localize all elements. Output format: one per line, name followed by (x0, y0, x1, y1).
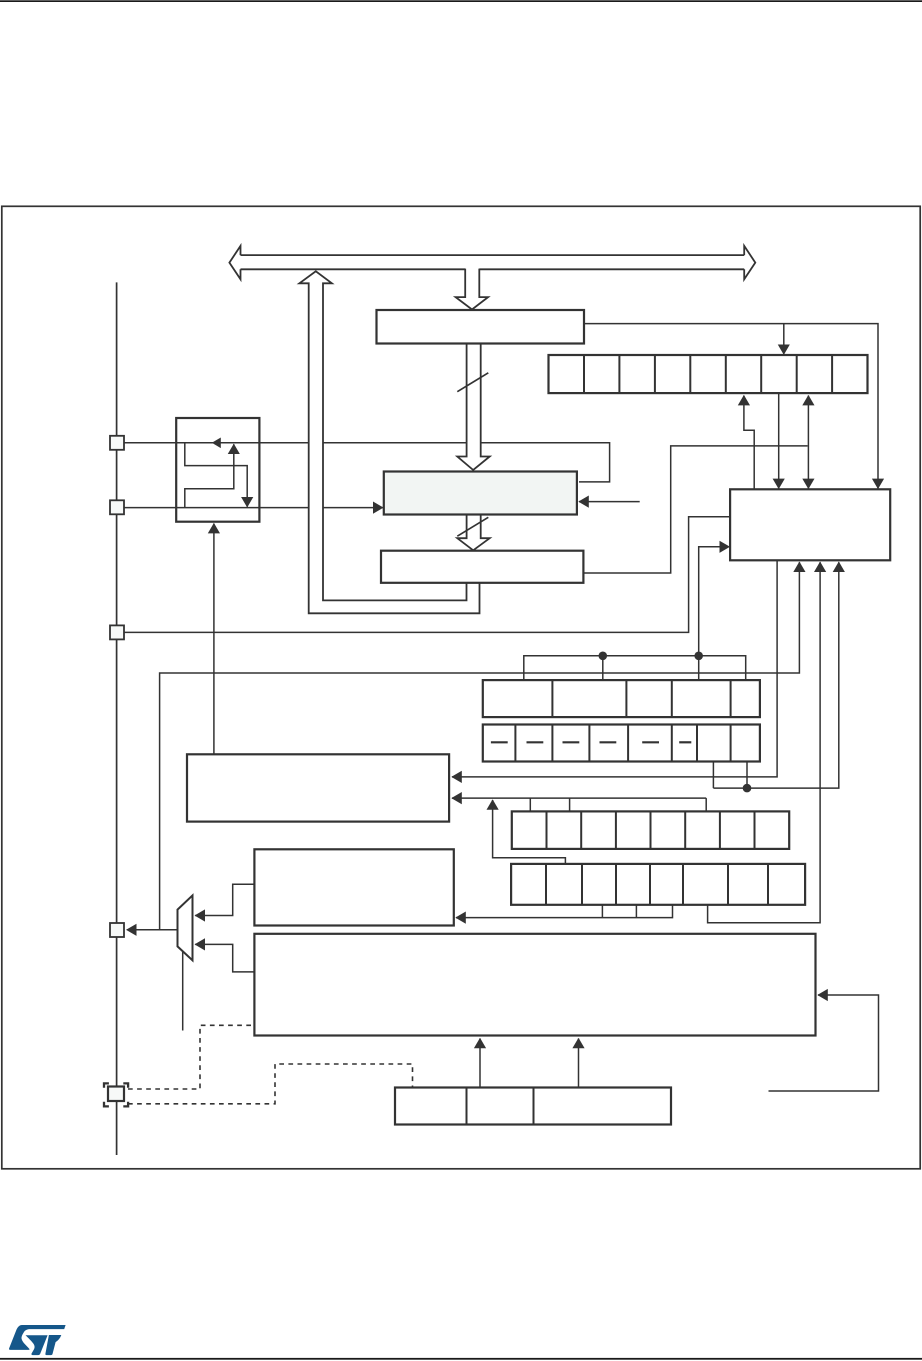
box prescaler (bottom, 3 cells) (395, 1088, 671, 1125)
junction dot 1 on status bracket (599, 652, 608, 661)
wire: alternate counter to double arrow wire (583, 446, 807, 573)
box counter register (grey) (384, 472, 577, 515)
wire: overflow box up to edge detect box (arrow) (213, 524, 215, 755)
wire: bracket line to control box bottom (713, 562, 838, 788)
wire: load line to overflow box (arrow) (452, 797, 706, 799)
selection corner brackets around OCMP2 pin (104, 1083, 109, 1087)
arrowhead on ICAP wire pointing to pin (212, 438, 221, 449)
internal bus double arrow (top) (241, 254, 745, 256)
register row status (5 cells) (483, 680, 760, 717)
wire: staircase 1 inside edge detect box (185, 443, 247, 507)
dashed wire pin to capture logic left edge (128, 1025, 254, 1089)
wire: status bracket to control box left (arrow) (699, 547, 730, 656)
wire: mux output to OCMP pin (127, 929, 178, 931)
wire: branch down into CC register row top (783, 324, 785, 355)
wire: control register bracket drop 2 (746, 762, 748, 789)
pin square ICAP2 (110, 500, 124, 514)
wire: pin3 to control box left (124, 517, 729, 633)
wire: input capture row up-arrow to load line (493, 800, 566, 864)
register row output compare (8 cells) (512, 811, 789, 849)
wire: ICAP pin to counter (through edge detect box) (124, 443, 610, 482)
wire: status row bracket (524, 656, 746, 680)
wire: input capture row bracket to output compare circuit (arrow) (601, 905, 603, 918)
wire: control box top to CC row bottom (jog) (744, 396, 754, 490)
dashed wire pin to prescaler top (128, 1064, 413, 1104)
bottom page rule (0, 1358, 922, 1360)
pin square OCMP2 (selected) (108, 1087, 124, 1102)
junction dot 2 on status bracket (694, 652, 703, 661)
box edge detect circuit (left, staircase) (176, 418, 259, 522)
box output compare circuit (middle-left) (254, 849, 453, 925)
bus right arrowhead (744, 246, 755, 279)
hollow up arrow (16-bit bus to internal bus) (299, 271, 479, 613)
hollow down arrow bus to interface box (456, 269, 489, 310)
wire: OCMP node up to control box bottom (160, 562, 800, 930)
wire: CPU clock stub into counter (arrow) (579, 501, 640, 503)
figure frame (2, 206, 920, 1169)
ST logo (9, 1325, 66, 1355)
register row CC (top right, 9 cells) (549, 355, 868, 393)
pin rail (left vertical line) (116, 282, 118, 1155)
wire: mux input 2 from capture logic box (195, 944, 254, 972)
wire: pin2 to counter left edge (124, 507, 383, 509)
box timer interrupt / control logic (right) (730, 489, 890, 560)
box overflow detect circuit (left) (187, 754, 449, 821)
bus width slash 2 (457, 517, 488, 536)
box edge detect / capture logic (big bottom) (254, 934, 815, 1036)
wire: control box bottom to overflow box (arrow) (452, 560, 777, 777)
wire: CC row bottom down to control box top (778, 393, 780, 488)
box alternate counter register (381, 551, 583, 583)
hollow bus counter to alternate counter with arrowhead (457, 514, 489, 550)
wire: CC row / control box double arrow (807, 396, 809, 489)
top page rule (0, 0, 922, 2)
register row input capture (8 cells) (511, 864, 805, 905)
register row control (8 cells with dashes) (483, 725, 760, 762)
dash marks in control register cells (491, 741, 508, 743)
wire: input capture row bottom to control box bottom (708, 562, 821, 923)
wire: interface box to control box top (584, 324, 878, 489)
pin square ICAP1 (110, 436, 124, 450)
wire: control register bracket drop 1 (712, 762, 714, 789)
bus width slash 1 (457, 373, 488, 392)
box MCU-peripheral interface (top) (377, 310, 585, 344)
pin square EXTCLK (110, 625, 124, 639)
wire: EXEDG stub to capture logic box (arrow) (769, 995, 879, 1091)
bus left arrowhead (229, 246, 240, 279)
wire: load line drops into output compare row (529, 798, 531, 811)
wire: prescaler to capture logic arrows (479, 1039, 481, 1088)
junction dot on control bracket (743, 784, 752, 793)
wire: mux select stub (182, 952, 184, 1031)
hollow bus interface box to counter with arrowhead (457, 344, 489, 471)
pin square OCMP1 (110, 923, 124, 937)
mux (trapezoid) (178, 895, 193, 960)
wire: mux input 1 from output compare circuit (195, 884, 254, 915)
wire: staircase 2 inside edge detect box (185, 444, 234, 507)
